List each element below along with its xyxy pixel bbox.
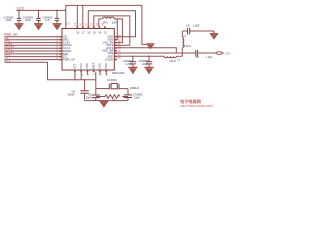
IC bottom pin names vertical (73, 62, 108, 69)
svg-text:10uF: 10uF (6, 18, 12, 22)
svg-text:330pF: 330pF (67, 93, 75, 97)
left pin numbers (56, 35, 58, 60)
capacitor C8 plates (195, 50, 197, 57)
crystal X1 (108, 84, 110, 90)
wire PWR_UP (5, 36, 60, 38)
junction dots (18, 10, 183, 81)
svg-text:VDD: VDD (16, 6, 24, 10)
label C3 (23, 15, 33, 22)
svg-text:1nF: 1nF (45, 18, 50, 22)
wire CE (5, 39, 60, 41)
wire corner C pin4 (94, 16, 130, 45)
label C2 (4, 15, 14, 22)
label C5 (139, 59, 149, 66)
wire DR1 (5, 56, 60, 58)
ground C4b (128, 67, 137, 74)
left bus wires (5, 37, 96, 80)
top pin numbers rotated (75, 22, 105, 25)
capacitor C9 plates (92, 94, 100, 96)
antenna ANT (215, 52, 223, 55)
svg-text:IREF: IREF (92, 62, 96, 69)
svg-text:RF1: RF1 (103, 21, 108, 25)
wire CS (5, 59, 60, 61)
svg-text:VSS: VSS (98, 63, 102, 69)
svg-text:XC2: XC2 (79, 63, 83, 69)
crystal circuit (75, 72, 132, 100)
label C7 (133, 92, 143, 99)
wire DR2 (5, 42, 60, 44)
wire coil line pin5 (99, 19, 103, 26)
wire corner B pin3 (88, 11, 135, 37)
svg-text:10nF: 10nF (25, 18, 31, 22)
ground crystal (100, 102, 109, 108)
top pin squares (77, 26, 106, 28)
shunt capacitor C4b (130, 56, 136, 67)
ground C6 (210, 34, 218, 40)
right pin numbers (118, 35, 121, 60)
IC U1 body (62, 29, 114, 71)
ground C3 (34, 24, 43, 30)
ground right of IC (146, 44, 154, 49)
capacitor C7 plates (124, 94, 132, 96)
svg-text:http://www.cndzz.com/: http://www.cndzz.com/ (180, 104, 213, 108)
wire XC1 route (5, 62, 96, 80)
wire VDD risers pins 1-2 (77, 5, 135, 45)
wire CLK1 (5, 50, 60, 52)
shunt capacitor C5 (146, 56, 152, 67)
wire corner D2 pin6 (114, 19, 122, 43)
svg-text:DVDD: DVDD (105, 58, 113, 62)
svg-text:ANT: ANT (225, 51, 231, 55)
svg-text:22R: 22R (112, 21, 117, 25)
wire ANT line2 (117, 55, 164, 57)
bottom pin numbers (76, 73, 109, 76)
svg-text:XC1: XC1 (4, 59, 10, 63)
bottom pin squares (74, 70, 107, 72)
svg-text:VSS: VSS (85, 63, 89, 69)
IC left pin names (63, 35, 75, 62)
inductor RF1 (103, 17, 114, 19)
svg-text:U1: U1 (66, 21, 70, 25)
label C4b (123, 59, 133, 66)
wire DATA2 (5, 47, 60, 49)
wire CLK2 (5, 44, 60, 46)
capacitor C8x 330pF (84, 80, 86, 91)
svg-text:15pF: 15pF (134, 95, 140, 99)
capacitor C6 plates (187, 28, 189, 35)
label C4 (43, 15, 53, 22)
wire rail corner to top rail and down right side (66, 5, 147, 44)
ground C5 (144, 67, 153, 74)
label C8x (67, 90, 75, 97)
svg-text:X1/0603: X1/0603 (107, 78, 117, 82)
svg-text:5.6nH: 5.6nH (184, 44, 191, 48)
svg-text:22pF: 22pF (142, 62, 148, 66)
svg-text:2.2nF: 2.2nF (125, 62, 132, 66)
inductor L2 (164, 56, 176, 57)
svg-text:C6: C6 (186, 24, 190, 28)
label C9 (86, 93, 92, 99)
svg-text:15pF: 15pF (86, 96, 92, 99)
left pin squares (59, 36, 62, 60)
wire DATA1 (5, 53, 60, 55)
svg-text:VSS: VSS (104, 63, 108, 69)
left net labels (4, 33, 17, 63)
IC right pin names (102, 35, 113, 62)
wire ANT line1 (117, 52, 195, 54)
capacitor C3 (36, 10, 40, 23)
svg-text:+ 1pF: + 1pF (206, 55, 213, 59)
svg-text:XC1: XC1 (73, 63, 77, 69)
wire line row5 to L1 junction (117, 28, 215, 58)
wire XC2 pin to loop (95, 72, 97, 88)
node VDD rail (16, 5, 146, 44)
inductor L1 vertical (181, 48, 183, 54)
wire bottom rail (85, 100, 128, 102)
wire XC1 pin down (74, 72, 76, 80)
ground C2 (15, 24, 24, 30)
svg-text:NRF2401: NRF2401 (112, 71, 125, 75)
right pin squares (114, 36, 117, 60)
ground C4 (53, 24, 62, 30)
svg-text:1.0pF: 1.0pF (193, 24, 200, 28)
wire C6 line (182, 30, 187, 32)
IC top pin numbers row (76, 30, 107, 34)
capacitor C2 (17, 10, 21, 23)
svg-text:PWR_UP: PWR_UP (63, 58, 75, 62)
svg-text:1M: 1M (112, 97, 116, 101)
wire stub pins (80, 72, 82, 80)
svg-text:20nH: 20nH (170, 59, 176, 63)
svg-text:16MHz: 16MHz (130, 86, 140, 90)
resistor R1 1M (96, 96, 105, 98)
crystal loop top (96, 88, 110, 90)
wire pin down right end (99, 72, 101, 75)
capacitor C4 (55, 10, 59, 23)
svg-text:C8: C8 (196, 55, 200, 59)
